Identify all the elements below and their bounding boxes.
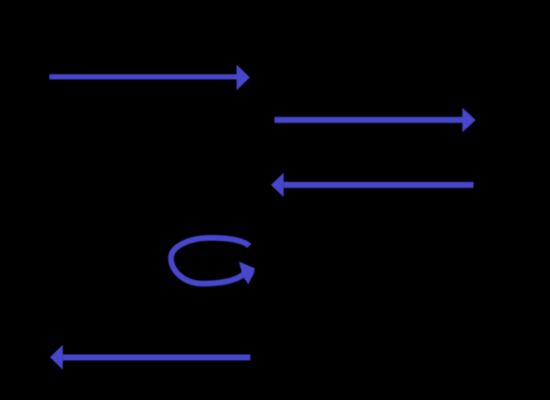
arrow message 4 (bottom, right-to-left) xyxy=(50,345,250,370)
arrow message 3 (third, right-to-left) xyxy=(271,173,474,197)
arrow message 1 (top, left-to-right) xyxy=(49,65,250,91)
loop arrow (self-message ellipse, counterclockwise) xyxy=(171,238,255,284)
arrow message 2 (second, left-to-right) xyxy=(274,108,475,133)
